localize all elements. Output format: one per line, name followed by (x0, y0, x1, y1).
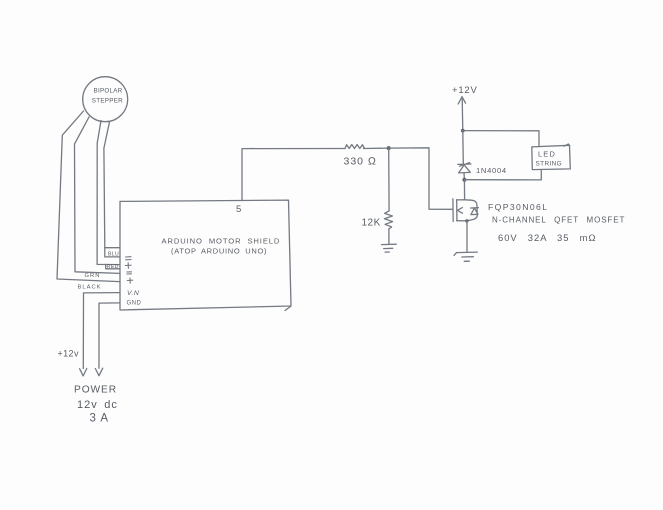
arduino motor shield U1 box (120, 200, 291, 310)
label box RED (106, 264, 120, 270)
svg-text:3A: 3A (90, 413, 113, 425)
wire node B down to diode (462, 131, 465, 164)
svg-text:(ATOP ARDUINO UNO): (ATOP ARDUINO UNO) (171, 247, 267, 256)
resistor R2 12K (362, 211, 393, 229)
LED string box (532, 144, 571, 170)
svg-text:RED: RED (107, 264, 119, 270)
arrow VIN down (80, 368, 87, 376)
svg-text:STRING: STRING (536, 161, 563, 168)
wire shield pin5 up and right to resistor (242, 149, 345, 201)
label box BLU (105, 248, 120, 258)
svg-text:BLU: BLU (108, 251, 119, 257)
svg-text:GND: GND (127, 301, 142, 307)
resistor R1 330ohm (344, 145, 378, 168)
pin label plus1 (125, 263, 131, 269)
svg-text:N-CHANNEL QFET MOSFET: N-CHANNEL QFET MOSFET (492, 216, 625, 225)
wire VIN to power arrow (83, 293, 119, 369)
+12V arrow up (458, 97, 465, 104)
svg-text:STEPPER: STEPPER (92, 98, 123, 105)
wire red (stepper to shield) (97, 121, 119, 265)
node C junction dot (462, 178, 466, 182)
pin label minus2 (127, 272, 132, 274)
wire GND to power arrow (99, 303, 120, 368)
svg-text:12K: 12K (362, 218, 381, 229)
wire blu (stepper to shield) (104, 122, 120, 248)
wire node B right to LED string top (463, 131, 539, 147)
pin label plus2 (127, 278, 132, 283)
ground GND1 (382, 244, 397, 252)
svg-text:BIPOLAR: BIPOLAR (94, 88, 123, 95)
wire +12V down to node B (461, 99, 464, 131)
svg-text:330 Ω: 330 Ω (344, 156, 378, 168)
node A junction dot (387, 146, 391, 150)
diode D1 1N4004 (458, 163, 507, 178)
svg-text:LED: LED (538, 150, 556, 159)
svg-text:BLACK: BLACK (78, 285, 102, 291)
svg-text:5: 5 (236, 204, 241, 215)
wire node C right and up to LED string bottom (464, 170, 541, 180)
svg-text:+12V: +12V (452, 85, 478, 96)
svg-text:V.N: V.N (127, 290, 139, 297)
transistor Q1 FQP30N06L mosfet (453, 199, 479, 223)
node B junction dot (461, 129, 465, 133)
wire node C down to mosfet drain (463, 180, 465, 200)
svg-text:POWER: POWER (74, 385, 117, 396)
wire R2 to ground (388, 229, 390, 245)
ground GND2 (454, 252, 477, 261)
svg-text:12v dc: 12v dc (77, 399, 118, 411)
arrow GND down (95, 368, 102, 376)
pin label minus1 (126, 257, 132, 260)
wire node A down to R2 (388, 148, 390, 211)
svg-text:+12v: +12v (58, 349, 79, 359)
wire grn (stepper to shield) (75, 117, 120, 273)
wire mosfet source to ground (466, 221, 468, 252)
svg-text:1N4004: 1N4004 (476, 166, 507, 175)
svg-text:60V 32A 35 mΩ: 60V 32A 35 mΩ (498, 232, 597, 243)
svg-text:GRN: GRN (85, 273, 101, 279)
stepper motor M1 circle (83, 77, 128, 122)
wire node A to gate (right, down, right) (389, 148, 453, 210)
svg-text:ARDUINO MOTOR SHIELD: ARDUINO MOTOR SHIELD (162, 237, 281, 246)
svg-text:FQP30N06L: FQP30N06L (488, 202, 548, 212)
wire resistor to node A (364, 147, 389, 149)
wire black (stepper to shield) (57, 111, 120, 282)
